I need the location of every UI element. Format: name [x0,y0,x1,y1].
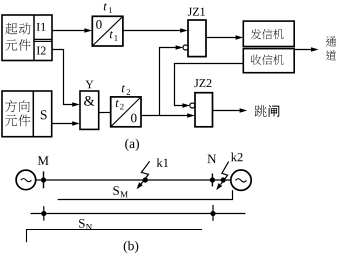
label SN [79,219,92,230]
label 通道 (channel) [326,36,337,60]
wire receiver to JZ2 inverting input [175,64,244,108]
inverting circle JZ1 input [183,45,188,50]
block 收信机 (receiver) [243,49,294,73]
generator M [16,170,36,190]
wire generator M to bus M [36,179,44,181]
pin S [41,110,47,119]
power flow SN line [31,213,246,215]
block 方向元件 (directional element) [2,91,52,137]
label 跳闸 (trip) [255,105,280,117]
fault k2 [216,162,229,191]
bus M [41,171,46,188]
wire junction to JZ1 inverting input [160,45,184,115]
timer t1 (0/t1 delay) [92,16,123,46]
label N [207,155,216,164]
AND gate Y [80,91,99,129]
label JZ2 [194,79,211,87]
wire t1 to JZ1 [123,28,188,33]
label (a) [125,139,139,151]
label k1 [157,158,169,167]
label t1 above timer [104,3,112,13]
node tap at bus N on SN line [210,205,215,221]
fault k1 [137,161,150,189]
bus N [210,174,215,187]
label M [38,156,49,165]
block 发信机 (transmitter) [243,21,294,46]
label SM [113,186,127,197]
generator N [231,170,251,190]
label k2 [231,153,243,162]
wire t2 output to JZ2 [141,113,195,118]
wire JZ2 to trip output [213,108,248,113]
label JZ1 [188,8,205,16]
power flow SM line [58,190,233,199]
wire to channel 通道 [294,47,318,52]
label Y above AND gate [85,81,93,89]
wire S to AND gate [52,121,80,126]
pin I1 [34,23,52,40]
bracket line below SN [27,230,203,243]
pin I2 [34,41,52,54]
wire AND gate to timer t2 [99,112,111,114]
inverting circle JZ2 input [190,103,195,108]
wire I1 to timer t1 [52,28,92,33]
wire I2 to AND gate [52,50,80,107]
relay JZ1 [188,20,206,57]
node tap at bus M on SN line [41,206,46,220]
label t2 above timer [122,85,130,95]
wire JZ1 to transmitter [206,35,243,40]
block 起动元件 (starting element) [2,15,52,61]
relay JZ2 [195,93,213,127]
label (b) [124,241,139,253]
timer t2 (t2/0 delay) [111,97,141,127]
transmission line M-N [44,179,231,181]
